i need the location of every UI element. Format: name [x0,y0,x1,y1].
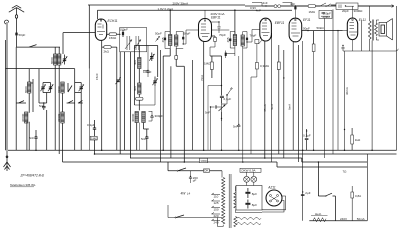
svg-text:100pF: 100pF [120,28,129,32]
svg-text:EF11: EF11 [303,18,311,22]
capacitor node [344,129,345,130]
wire plate to IFT2 [212,29,230,31]
wire [160,50,162,162]
wire [74,69,76,103]
resistor R3 [136,97,143,100]
wire anode to transformer [352,6,354,18]
wire ground bus B1 [8,149,397,151]
svg-text:7mA: 7mA [200,75,204,81]
switch power [318,162,325,196]
wire [302,41,304,150]
capacitor 25pF bracket [230,32,235,49]
switch tone [320,3,331,6]
capacitor 0,1uF psu [305,129,309,150]
wire [170,66,172,158]
resistor R5 [212,36,216,37]
variable capacitor C5 [125,36,132,50]
switch mains b [176,215,184,218]
transformer HV secondary [234,191,237,208]
svg-text:100Ω: 100Ω [200,159,208,163]
wire secondary to EBF11 grid [183,30,199,44]
trimmer circles [274,5,277,8]
capacitor 100pF [122,32,124,35]
resistor heater dropper [313,218,326,222]
coil L3 pair [54,54,57,65]
svg-text:DKW 0,9A: DKW 0,9A [242,169,256,173]
svg-text:465: 465 [226,37,230,42]
transformer TR primary [218,171,225,227]
wire left earth rail [6,22,8,150]
svg-text:15nF: 15nF [95,73,99,80]
wire heater run [237,217,261,224]
svg-text:50pF: 50pF [155,31,162,35]
electrolytic box [236,186,262,211]
capacitor 300pF [151,115,152,116]
junction dots [35,149,373,162]
svg-text:4nF: 4nF [256,9,261,13]
svg-text:1MΩ: 1MΩ [204,61,211,65]
svg-text:1kΩ: 1kΩ [355,138,361,142]
wire [191,60,193,150]
trimmer C7 [151,53,153,62]
capacitor 4nF grid [294,7,296,10]
switch S2 [68,83,72,92]
capacitor 100pF osc [147,70,148,71]
tube EF11 U4 [289,18,302,42]
svg-text:0,1μF: 0,1μF [303,133,311,137]
capacitor 5nF [43,102,44,103]
svg-text:EBF11: EBF11 [275,21,285,25]
svg-text:50mA: 50mA [357,217,365,221]
lamp La2 [251,176,257,182]
capacitor 8uF a [245,192,250,194]
svg-text:L4: L4 [187,191,191,195]
capacitor 50pF bracket [165,32,170,49]
capacitor 50pF b bracket [176,32,183,49]
wire [323,18,325,158]
capacitor bracket b [243,32,247,49]
capacitor 12uF [302,191,303,192]
capacitor 5nF bottom [225,53,227,56]
tube AZ11 rectifier [266,190,282,206]
svg-text:300pF: 300pF [155,114,164,118]
transformer core [372,20,373,41]
wire cathode down [203,42,205,151]
capacitor 5nF [210,106,211,107]
svg-text:Telefunken 335 WL: Telefunken 335 WL [10,183,36,187]
fuse box DK [204,169,210,172]
wire [337,31,339,151]
gang capacitor box [120,28,147,52]
svg-text:2μF: 2μF [305,191,310,195]
wire junction [221,85,222,86]
svg-text:20kΩ: 20kΩ [323,15,331,19]
wire transformer secondary down [371,41,373,151]
svg-text:30000: 30000 [57,113,61,122]
svg-text:240V: 240V [340,217,347,221]
variable capacitor C6 [134,36,141,50]
coil L2 [25,112,28,123]
coil IFT2b [241,35,244,46]
svg-text:70pF: 70pF [219,33,226,37]
wire right rail [396,6,398,150]
wire top rail right [245,5,394,7]
svg-text:5nF: 5nF [39,104,44,108]
capacitor 8uF b [245,203,250,205]
tube EBF11 U3 [260,18,272,41]
box 20pF 3000 [336,3,358,9]
coil IFT2a [233,35,236,46]
tone box 100pF 20k [319,10,332,18]
wire right power rail [366,154,368,221]
wire top rail 2 [98,9,293,11]
svg-text:110: 110 [214,194,219,198]
wire mains b [168,205,222,218]
transformer heater winding [234,217,237,227]
resistor 100R box on bus [200,158,208,162]
trimmer AGC [115,77,120,84]
wire bus B4 [63,162,278,167]
coil L5 [61,112,64,123]
resistor R4 [175,49,177,56]
wire rectifier out [262,196,286,210]
wire [271,33,273,162]
svg-text:4mA: 4mA [270,104,274,110]
wire bus B2 [95,153,397,155]
lamp La1 [244,176,250,182]
wire secondary to det grid [247,30,260,43]
resistor 1k vertical [351,128,353,135]
capacitor 5nF b [238,124,239,125]
node rail1 [295,5,297,7]
trimmer C1 [42,83,44,93]
wire switch row top [17,46,61,48]
svg-text:5nF: 5nF [233,125,238,129]
coil L6 [138,58,141,69]
svg-text:EBF11: EBF11 [211,16,221,20]
capacitor 0,1uF det [220,96,224,103]
transformer core [229,174,231,228]
wire gang drops [120,52,130,158]
wire [298,45,300,162]
svg-text:30mA: 30mA [345,87,349,95]
wire bus B5 [277,166,367,168]
capacitor box 0,1uF [255,40,259,44]
wire [283,50,285,158]
wire [332,9,334,154]
wire [208,86,222,151]
capacitor 50pF [218,21,219,22]
svg-text:20pF: 20pF [342,9,349,13]
fuse Si [351,192,354,198]
svg-text:8000: 8000 [50,57,54,64]
wire cathode down [101,40,103,150]
svg-text:100pF: 100pF [143,70,152,74]
resistor R10 [278,45,280,62]
resistor R1 [104,46,111,49]
coil L4 [61,82,64,93]
svg-text:8μF: 8μF [252,203,257,207]
coil L9 [142,112,145,123]
svg-text:4nF: 4nF [290,2,295,6]
potentiometer P1 [219,103,226,112]
capacitor 5nF node [35,136,36,137]
transformer T1 primary [368,9,371,51]
coil IFT1b [175,35,178,46]
switch S4 [78,101,83,103]
switch S1 [29,45,37,48]
svg-text:5nF: 5nF [141,137,146,141]
wire bus B3 [130,158,367,162]
svg-text:6000: 6000 [57,86,61,93]
svg-text:70pF: 70pF [250,33,257,37]
node [6,156,8,158]
resistor R9 50k [313,31,315,44]
wire switch feed [168,162,222,171]
capacitor 50pF antenna [15,33,17,36]
speaker LS [379,23,387,37]
wire anode to rail [88,5,90,69]
resistor R2 [109,33,116,36]
svg-text:30000: 30000 [21,113,25,122]
wire top rail 1 [88,4,245,6]
coil IFT1a [169,35,172,46]
resistor R6 [210,55,222,57]
capacitor 200pF [190,176,191,177]
wire hook right [392,5,395,8]
svg-text:50pF: 50pF [19,33,26,37]
wire [88,69,90,151]
lamp box DKW [240,168,261,172]
wire corner box [252,3,292,7]
wire HV to rectifier [235,187,262,213]
wire cathode down [264,41,266,158]
wire screen to rail2 [97,10,99,19]
svg-text:4W: 4W [181,191,187,195]
svg-text:220: 220 [214,214,219,218]
wire heater bus bottom right [309,220,367,222]
tube EL11 U5 [347,18,357,40]
svg-text:0,1μF: 0,1μF [87,123,95,127]
svg-text:200V 30mA: 200V 30mA [173,2,189,6]
trimmer wave trap [157,38,159,40]
svg-text:600: 600 [133,86,137,91]
svg-text:DK: DK [204,169,208,173]
switch TA [259,40,263,44]
wire grid line from coil [63,33,95,54]
wire IFT1 drops [163,49,170,151]
svg-text:1MΩ: 1MΩ [309,10,316,14]
svg-text:pF: pF [193,178,197,182]
wire B+ riser [302,150,304,221]
svg-text:50kΩ: 50kΩ [317,26,325,30]
transformer taps [212,193,221,221]
wire EL11 side lead [361,21,363,52]
wire verticals antenna block [15,47,17,103]
svg-text:150Ω: 150Ω [109,36,117,40]
svg-text:5nF: 5nF [205,110,210,114]
wire grid [343,30,348,32]
coil L7 [138,83,141,94]
svg-text:4nF: 4nF [263,1,268,5]
svg-text:0,1μF: 0,1μF [224,97,232,101]
transformer secondary [375,23,378,36]
svg-text:0,3MΩ: 0,3MΩ [260,64,270,68]
svg-text:8000: 8000 [24,86,28,93]
svg-text:ZF=468/472 kHz: ZF=468/472 kHz [20,173,45,177]
svg-text:1MΩ: 1MΩ [91,136,98,140]
wire [139,123,141,151]
resistor 0,3M R7 [255,63,258,70]
wire [292,42,294,150]
svg-text:50pF: 50pF [184,31,191,35]
svg-text:7Ω: 7Ω [343,170,348,174]
svg-text:2kΩ: 2kΩ [104,49,110,53]
svg-text:ECH11: ECH11 [108,19,118,23]
wire plate out [302,30,343,32]
antenna [9,5,24,33]
trimmer C3 [64,55,66,65]
resistor 1M box [90,136,97,140]
svg-text:Heiz.: Heiz. [315,212,322,216]
coil L1 [28,82,31,93]
wire antenna down [16,35,18,47]
svg-text:0,8A: 0,8A [355,194,361,198]
svg-text:40000: 40000 [131,113,135,122]
wire screen [204,10,206,18]
svg-text:400: 400 [133,60,137,65]
svg-text:465: 465 [161,37,165,42]
svg-text:150: 150 [214,207,219,211]
trimmer C2 [50,83,52,93]
svg-text:47mA: 47mA [263,104,267,112]
trimmer C8 [154,77,156,87]
svg-text:AZ11: AZ11 [267,186,276,190]
capacitor 5nF [146,136,147,137]
resistor R8 1M [308,5,315,8]
op tube ECH11 U1 [95,19,106,40]
wire primary feed [169,10,171,34]
capacitor 5nF cathode [342,45,343,46]
capacitor 4nF node [265,5,266,6]
capacitor node [283,77,284,78]
ground [4,162,11,171]
svg-text:5nF: 5nF [29,136,34,140]
wire osc frame [134,46,157,106]
wire drops to ground bus [16,103,81,154]
wire [116,47,118,150]
svg-text:6mA: 6mA [288,104,292,110]
svg-text:240: 240 [214,220,219,224]
switch mains a [178,168,186,171]
wire drops [226,48,243,162]
capacitor 50pF [307,30,308,31]
capacitor 0,1uF [94,127,95,128]
svg-text:3000Ω: 3000Ω [354,9,364,13]
switch S3 [67,100,75,103]
trimmer C4 [80,83,82,93]
switch row y103 [16,101,26,103]
node rail2 ift1 [169,9,171,11]
wire horiz y68 [6,68,75,70]
capacitor 20pF blob [345,5,346,6]
tube EBF11 U2 [199,19,212,42]
switch TA2 [226,94,227,95]
coil L8 [135,112,138,123]
svg-text:8μF: 8μF [252,192,257,196]
svg-text:1,9V 0,2mA: 1,9V 0,2mA [158,7,174,11]
svg-text:125: 125 [214,201,219,205]
svg-text:EL11: EL11 [359,18,366,22]
wire primary tie [234,10,236,34]
svg-text:50pF: 50pF [303,26,310,30]
